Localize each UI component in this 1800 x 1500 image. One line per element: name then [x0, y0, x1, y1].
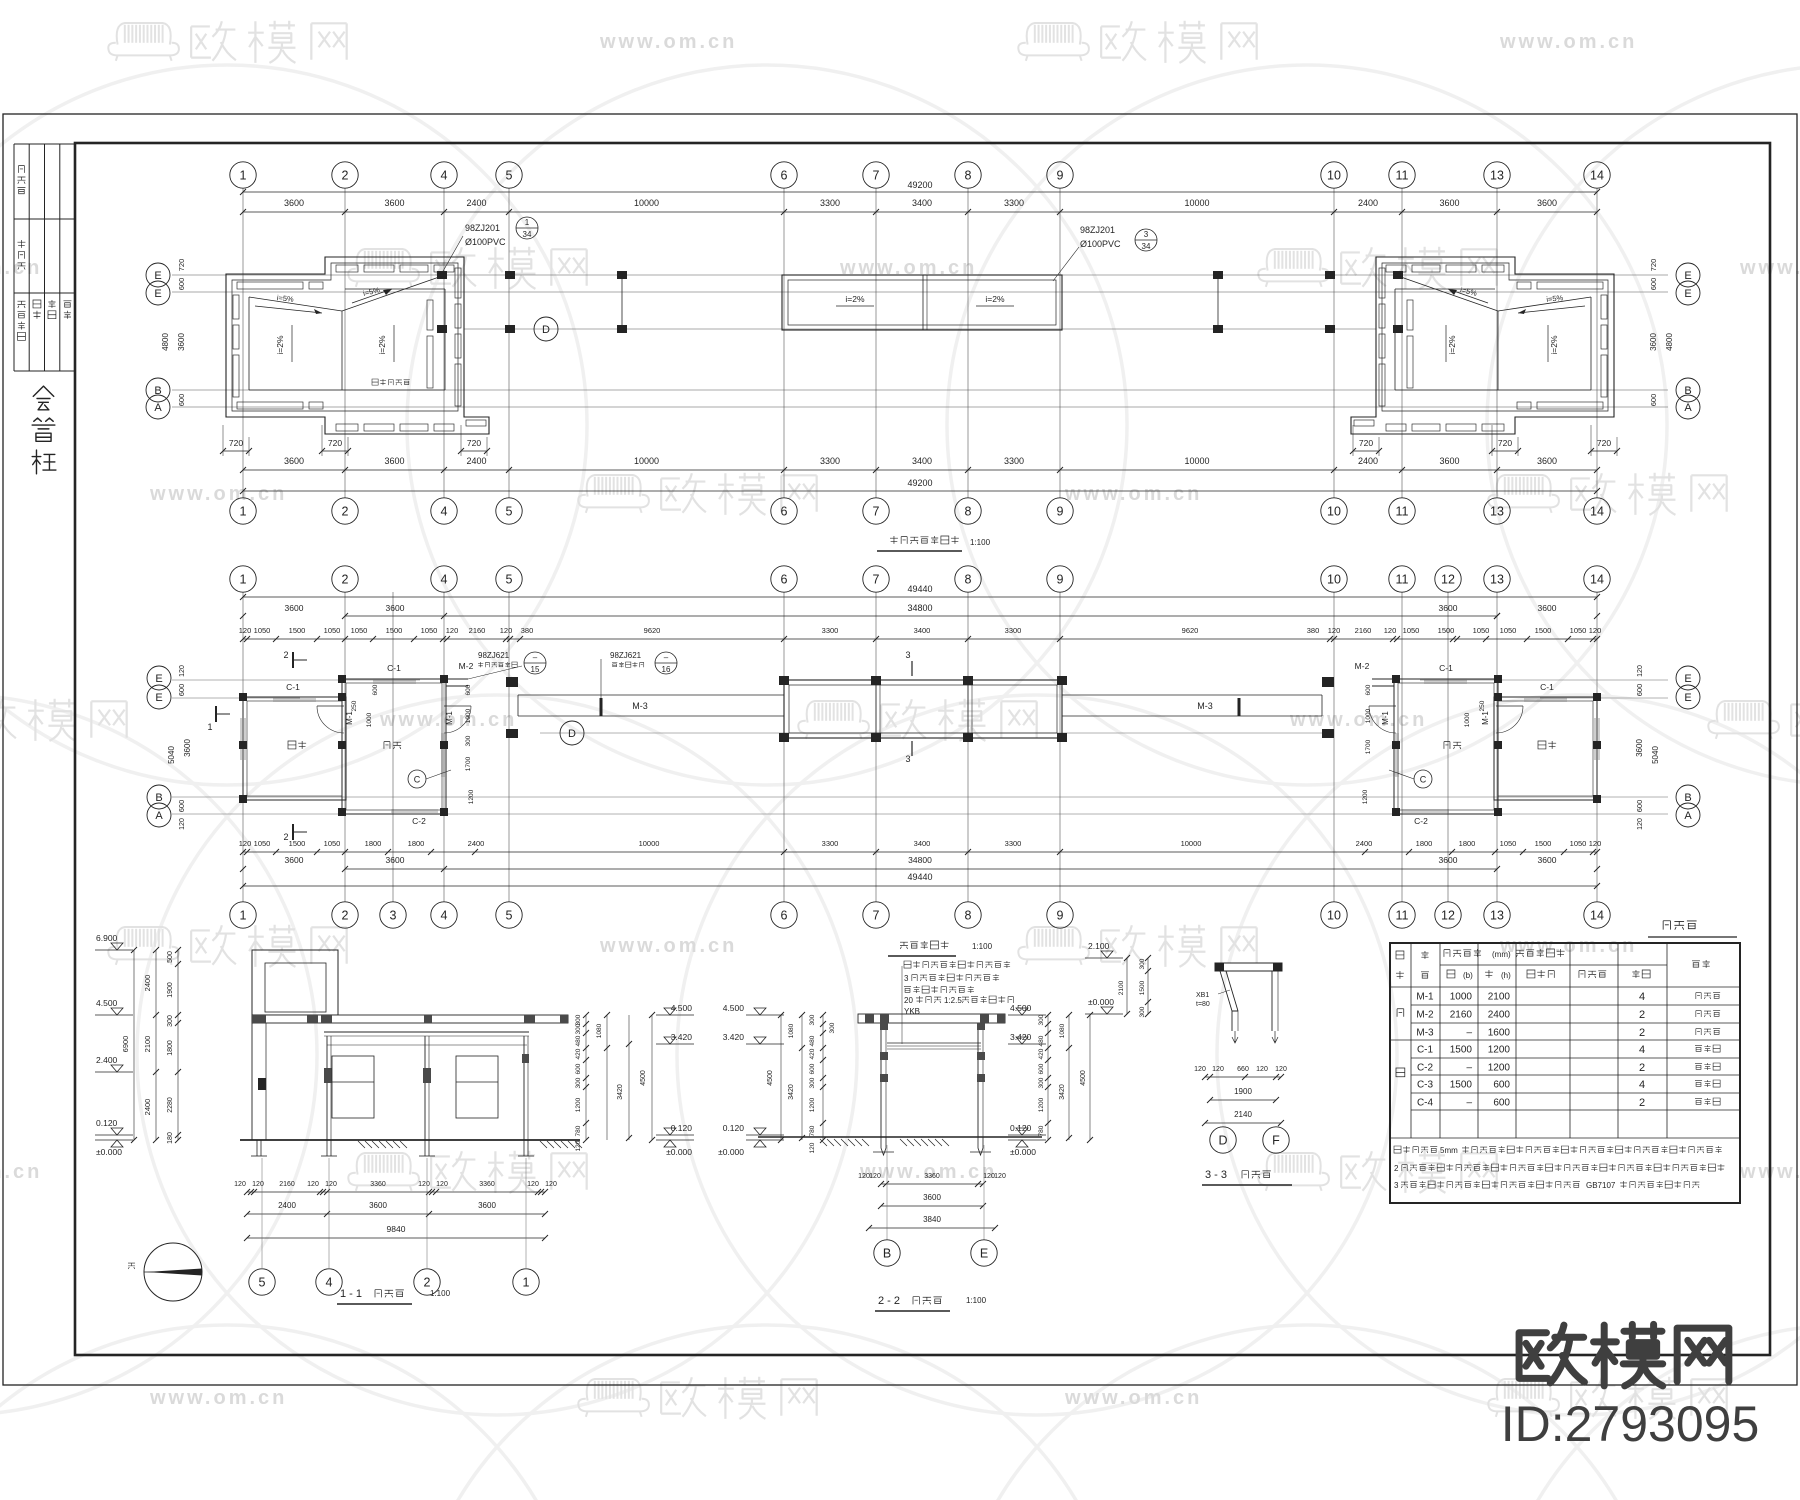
svg-text:3420: 3420	[617, 1084, 624, 1100]
svg-text:2400: 2400	[466, 198, 486, 208]
svg-text:2100: 2100	[1488, 992, 1511, 1003]
section 1-1 left level marks	[95, 949, 133, 951]
svg-text:600: 600	[1649, 278, 1658, 291]
svg-text:1500: 1500	[386, 626, 403, 635]
svg-text:7: 7	[873, 573, 880, 587]
svg-text:±0.000: ±0.000	[666, 1147, 692, 1157]
svg-text:3600: 3600	[284, 198, 304, 208]
svg-text:600: 600	[575, 1063, 582, 1074]
svg-text:(h): (h)	[1501, 971, 1511, 980]
svg-text:M-1: M-1	[1381, 711, 1390, 725]
top plan horizontal grid lines F E D B A	[172, 274, 1668, 276]
svg-text:3420: 3420	[1059, 1084, 1066, 1100]
svg-text:4: 4	[1639, 1079, 1645, 1091]
top plan vertical grid lines	[243, 188, 1597, 498]
svg-text:120: 120	[307, 1181, 319, 1188]
section 3-3 gate frame	[1215, 963, 1282, 971]
section 2-2 grid circles	[886, 1145, 888, 1240]
svg-text:E: E	[154, 288, 161, 300]
svg-text:3300: 3300	[1005, 626, 1022, 635]
svg-text:7: 7	[873, 909, 880, 923]
svg-text:3 - 3: 3 - 3	[1205, 1169, 1227, 1181]
middle plan grid circles top	[230, 566, 256, 592]
svg-text:i=2%: i=2%	[1447, 335, 1457, 355]
svg-text:3600: 3600	[369, 1201, 387, 1210]
section 1-1 level dim chains	[155, 950, 157, 1140]
svg-text:i=2%: i=2%	[275, 335, 285, 355]
svg-text:4: 4	[1639, 1044, 1645, 1056]
svg-text:C-1: C-1	[1439, 663, 1453, 673]
svg-text:2.400: 2.400	[96, 1055, 118, 1065]
section 1-1 roof slab	[252, 1015, 568, 1023]
svg-text:–: –	[1466, 1028, 1472, 1039]
svg-text:300: 300	[465, 735, 472, 746]
svg-text:5: 5	[506, 505, 513, 519]
top plan short post lines	[621, 275, 623, 329]
svg-text:1050: 1050	[351, 626, 368, 635]
svg-text:34800: 34800	[907, 603, 932, 613]
svg-text:0.120: 0.120	[671, 1123, 693, 1133]
svg-text:M-1: M-1	[1416, 992, 1434, 1003]
svg-text:3600: 3600	[1538, 603, 1557, 613]
svg-text:1500: 1500	[289, 839, 306, 848]
svg-text:720: 720	[467, 438, 481, 448]
svg-text:720: 720	[1649, 259, 1658, 272]
svg-text:1:100: 1:100	[430, 1289, 451, 1298]
svg-text:6: 6	[781, 909, 788, 923]
svg-text:120: 120	[1637, 665, 1644, 677]
svg-text:120: 120	[545, 1181, 557, 1188]
svg-text:2: 2	[1639, 1062, 1645, 1074]
svg-text:250: 250	[351, 700, 358, 711]
svg-text:D: D	[542, 324, 550, 336]
top plan row circles left	[146, 263, 170, 287]
svg-text:300: 300	[1139, 1006, 1146, 1017]
svg-text:120: 120	[179, 818, 186, 830]
svg-text:34: 34	[1142, 242, 1151, 251]
svg-text:7: 7	[873, 505, 880, 519]
svg-text:3600: 3600	[1538, 855, 1557, 865]
svg-text:6900: 6900	[121, 1036, 130, 1053]
svg-text:1:2.5: 1:2.5	[944, 996, 962, 1005]
svg-text:600: 600	[1493, 1098, 1510, 1109]
svg-text:4: 4	[441, 505, 448, 519]
svg-text:www.om.cn: www.om.cn	[1064, 483, 1202, 505]
svg-text:1700: 1700	[465, 756, 472, 771]
svg-text:1200: 1200	[1038, 1097, 1045, 1112]
svg-text:600: 600	[1635, 684, 1644, 697]
svg-text:Ø100PVC: Ø100PVC	[1080, 239, 1121, 249]
section 2-2 left level stack	[746, 1014, 784, 1016]
svg-text:600: 600	[1649, 394, 1658, 407]
svg-text:www.om.cn: www.om.cn	[599, 31, 737, 53]
top plan grid circles - top row	[230, 162, 256, 188]
svg-text:3600: 3600	[1537, 198, 1557, 208]
svg-text:1500: 1500	[289, 626, 306, 635]
svg-text:A: A	[155, 810, 163, 822]
svg-text:3600: 3600	[1635, 739, 1644, 757]
svg-text:3300: 3300	[1004, 198, 1024, 208]
svg-text:1200: 1200	[575, 1097, 582, 1112]
svg-text:1500: 1500	[1535, 626, 1552, 635]
svg-text:1000: 1000	[465, 708, 472, 723]
svg-text:3360: 3360	[924, 1173, 940, 1180]
svg-text:480: 480	[575, 1035, 582, 1046]
svg-text:1000: 1000	[1450, 992, 1473, 1003]
svg-text:B: B	[155, 792, 162, 804]
svg-text:2: 2	[424, 1276, 431, 1290]
svg-text:8: 8	[965, 573, 972, 587]
svg-text:3: 3	[1394, 1181, 1399, 1190]
svg-text:3600: 3600	[183, 739, 192, 757]
svg-text:600: 600	[177, 800, 186, 813]
svg-text:9: 9	[1057, 505, 1064, 519]
svg-text:3360: 3360	[370, 1181, 386, 1188]
svg-text:11: 11	[1396, 505, 1409, 519]
svg-text:4.500: 4.500	[1010, 1003, 1032, 1013]
svg-text:E: E	[1684, 288, 1691, 300]
section 1-1 columns	[326, 1036, 328, 1140]
door-window table	[1390, 943, 1740, 1203]
section 2-2 right level stack	[1008, 1014, 1046, 1016]
svg-text:10000: 10000	[1184, 456, 1209, 466]
svg-text:2160: 2160	[279, 1181, 295, 1188]
svg-text:180: 180	[167, 1132, 174, 1144]
svg-text:120: 120	[809, 1142, 816, 1153]
svg-text:2100: 2100	[1118, 980, 1125, 995]
svg-text:3600: 3600	[1439, 855, 1458, 865]
corridor fence lines M-3	[518, 694, 784, 696]
svg-text:1:100: 1:100	[966, 1296, 987, 1305]
svg-text:120: 120	[500, 626, 513, 635]
svg-text:5040: 5040	[167, 746, 176, 764]
svg-text:10000: 10000	[634, 198, 659, 208]
svg-text:1: 1	[207, 722, 212, 732]
section 1-1 footings	[256, 1140, 258, 1156]
svg-text:14: 14	[1590, 573, 1604, 587]
svg-text:660: 660	[1237, 1066, 1249, 1073]
svg-text:2400: 2400	[1356, 839, 1373, 848]
svg-text:9620: 9620	[1182, 626, 1199, 635]
svg-text:4.500: 4.500	[96, 998, 118, 1008]
svg-text:F: F	[1272, 1134, 1280, 1148]
svg-text:C-1: C-1	[387, 663, 401, 673]
section 1-1 right level stack	[656, 1014, 694, 1016]
svg-text:3: 3	[390, 909, 397, 923]
svg-text:98ZJ621: 98ZJ621	[478, 651, 510, 660]
svg-text:i=2%: i=2%	[985, 294, 1005, 304]
svg-text:3400: 3400	[912, 198, 932, 208]
svg-text:1800: 1800	[1459, 839, 1476, 848]
svg-text:9: 9	[1057, 573, 1064, 587]
svg-text:10000: 10000	[1181, 839, 1202, 848]
svg-text:3600: 3600	[1439, 198, 1459, 208]
svg-text:1200: 1200	[809, 1097, 816, 1112]
svg-text:C-1: C-1	[286, 682, 300, 692]
svg-text:420: 420	[1038, 1048, 1045, 1059]
inner drawing frame	[75, 143, 1770, 1355]
roof build-up note block	[904, 961, 911, 968]
svg-text:i=5%: i=5%	[1546, 293, 1564, 304]
section 3-3 bottom dims	[1205, 1076, 1281, 1078]
svg-text:500: 500	[167, 951, 174, 963]
svg-text:4.500: 4.500	[723, 1003, 745, 1013]
svg-text:–: –	[664, 653, 669, 662]
top plan top dimension row - segments	[243, 211, 1597, 213]
svg-text:3400: 3400	[912, 456, 932, 466]
svg-text:6: 6	[781, 573, 788, 587]
svg-text:1:100: 1:100	[970, 538, 991, 547]
svg-text:1000: 1000	[366, 712, 373, 727]
svg-text:720: 720	[1597, 438, 1611, 448]
svg-text:480: 480	[1038, 1035, 1045, 1046]
svg-text:–: –	[1466, 1098, 1472, 1109]
svg-text:1050: 1050	[421, 626, 438, 635]
svg-text:C-1: C-1	[1540, 682, 1554, 692]
svg-text:1080: 1080	[788, 1023, 795, 1038]
svg-text:2 - 2: 2 - 2	[878, 1295, 900, 1307]
svg-text:1000: 1000	[1365, 708, 1372, 723]
svg-text:9620: 9620	[644, 626, 661, 635]
svg-text:B: B	[883, 1247, 891, 1261]
svg-text:1:100: 1:100	[972, 942, 993, 951]
svg-text:720: 720	[1498, 438, 1512, 448]
svg-text:12: 12	[1441, 573, 1455, 587]
svg-text:8: 8	[965, 169, 972, 183]
top plan title: roof drainage diagram	[890, 536, 898, 544]
svg-text:1: 1	[240, 909, 247, 923]
svg-text:www.om.cn: www.om.cn	[599, 935, 737, 957]
svg-text:1900: 1900	[167, 982, 174, 998]
svg-text:9: 9	[1057, 909, 1064, 923]
svg-text:8: 8	[965, 505, 972, 519]
svg-text:www.om.cn: www.om.cn	[1064, 1387, 1202, 1409]
svg-text:3300: 3300	[1005, 839, 1022, 848]
svg-text:M-1: M-1	[345, 711, 354, 725]
section 1-1 ground line and hatch	[240, 1139, 580, 1141]
svg-text:120: 120	[1328, 626, 1341, 635]
svg-text:±0.000: ±0.000	[96, 1147, 122, 1157]
svg-text:1800: 1800	[365, 839, 382, 848]
svg-text:ID:2793095: ID:2793095	[1501, 1396, 1760, 1452]
section 2-2 columns	[880, 1023, 882, 1137]
svg-text:2100: 2100	[143, 1036, 152, 1053]
svg-text:1200: 1200	[1488, 1045, 1511, 1056]
svg-text:2160: 2160	[1450, 1010, 1473, 1021]
svg-text:1: 1	[240, 169, 247, 183]
svg-text:120: 120	[179, 665, 186, 677]
svg-text:–: –	[1466, 1063, 1472, 1074]
section 2-2 structure	[858, 1014, 1005, 1023]
svg-text:2400: 2400	[1488, 1010, 1511, 1021]
svg-text:2: 2	[1394, 1164, 1399, 1173]
svg-text:300: 300	[809, 1077, 816, 1088]
svg-text:3600: 3600	[478, 1201, 496, 1210]
table headers	[1396, 951, 1404, 959]
svg-text:120: 120	[446, 626, 459, 635]
svg-text:1800: 1800	[1416, 839, 1433, 848]
svg-text:1 - 1: 1 - 1	[340, 1288, 362, 1300]
svg-text:2.100: 2.100	[1088, 941, 1110, 951]
section 1-1 tall pillar	[252, 950, 338, 1015]
svg-text:±0.000: ±0.000	[1088, 997, 1114, 1007]
svg-text:GB7107: GB7107	[1586, 1181, 1616, 1190]
svg-text:3360: 3360	[479, 1181, 495, 1188]
svg-text:±0.000: ±0.000	[1010, 1147, 1036, 1157]
svg-text:2400: 2400	[468, 839, 485, 848]
svg-text:i=2%: i=2%	[377, 335, 387, 355]
svg-text:10000: 10000	[639, 839, 660, 848]
svg-text:11: 11	[1396, 573, 1409, 587]
svg-text:3600: 3600	[1439, 603, 1458, 613]
svg-text:M-3: M-3	[632, 701, 648, 711]
svg-text:300: 300	[167, 1015, 174, 1027]
middle plan bottom dims	[243, 851, 1597, 853]
svg-text:1700: 1700	[1365, 739, 1372, 754]
svg-text:1050: 1050	[1403, 626, 1420, 635]
svg-text:13: 13	[1490, 169, 1504, 183]
svg-text:600: 600	[177, 684, 186, 697]
svg-text:1050: 1050	[324, 839, 341, 848]
svg-text:10: 10	[1327, 169, 1341, 183]
svg-text:3.420: 3.420	[723, 1032, 745, 1042]
svg-text:49440: 49440	[907, 584, 932, 594]
svg-text:C-2: C-2	[1417, 1063, 1434, 1074]
svg-text:M-3: M-3	[1197, 701, 1213, 711]
svg-text:C-2: C-2	[1414, 816, 1428, 826]
svg-text:8: 8	[965, 909, 972, 923]
svg-text:1500: 1500	[1438, 626, 1455, 635]
svg-text:6: 6	[781, 505, 788, 519]
svg-text:5: 5	[506, 573, 513, 587]
svg-text:120: 120	[1637, 818, 1644, 830]
svg-text:5: 5	[259, 1276, 266, 1290]
svg-text:M-1: M-1	[1481, 711, 1490, 725]
svg-text:13: 13	[1490, 505, 1504, 519]
svg-text:2400: 2400	[143, 1099, 152, 1116]
section 2-2 bottom dims	[881, 1183, 983, 1185]
svg-text:1050: 1050	[1570, 839, 1587, 848]
svg-text:13: 13	[1490, 573, 1504, 587]
svg-text:1050: 1050	[254, 839, 271, 848]
svg-text:2: 2	[283, 650, 288, 660]
svg-text:600: 600	[1493, 1080, 1510, 1091]
section 1-1 windows	[332, 1056, 374, 1118]
svg-text:600: 600	[177, 394, 186, 407]
svg-text:3840: 3840	[923, 1215, 941, 1224]
svg-text:420: 420	[809, 1048, 816, 1059]
svg-text:5: 5	[506, 909, 513, 923]
svg-text:3600: 3600	[177, 333, 186, 351]
svg-text:A: A	[154, 402, 162, 414]
svg-text:11: 11	[1396, 909, 1409, 923]
svg-text:1050: 1050	[324, 626, 341, 635]
svg-text:3600: 3600	[1537, 456, 1557, 466]
svg-text:120: 120	[1589, 839, 1602, 848]
svg-text:4: 4	[441, 169, 448, 183]
signature table vertical texts	[18, 166, 24, 173]
left gatehouse floor plan	[243, 697, 346, 800]
svg-text:720: 720	[1359, 438, 1373, 448]
svg-text:720: 720	[177, 259, 186, 272]
svg-text:120: 120	[575, 1140, 582, 1151]
svg-text:5040: 5040	[1651, 746, 1660, 764]
middle plan D circle	[560, 721, 584, 745]
svg-text:11: 11	[1396, 169, 1409, 183]
svg-text:2400: 2400	[278, 1201, 296, 1210]
svg-text:2: 2	[342, 169, 349, 183]
svg-text:120: 120	[325, 1181, 337, 1188]
svg-text:15: 15	[531, 665, 540, 674]
svg-text:10000: 10000	[1184, 198, 1209, 208]
svg-text:E: E	[155, 673, 162, 685]
svg-text:E: E	[980, 1247, 988, 1261]
svg-text:600: 600	[177, 278, 186, 291]
svg-text:120: 120	[239, 839, 252, 848]
svg-text:www.om.cn: www.om.cn	[0, 1161, 42, 1183]
middle plan horizontal row lines	[172, 679, 420, 681]
svg-text:5mm: 5mm	[1440, 1146, 1458, 1155]
svg-text:49200: 49200	[907, 478, 932, 488]
svg-text:14: 14	[1590, 909, 1604, 923]
svg-text:B: B	[1684, 792, 1691, 804]
svg-text:1500: 1500	[1450, 1080, 1473, 1091]
svg-text:480: 480	[809, 1035, 816, 1046]
svg-text:380: 380	[521, 626, 534, 635]
svg-text:2140: 2140	[1234, 1110, 1252, 1119]
svg-text:2: 2	[1639, 1097, 1645, 1109]
svg-text:4: 4	[441, 909, 448, 923]
svg-text:t=80: t=80	[1196, 1001, 1210, 1008]
svg-text:(b): (b)	[1463, 971, 1473, 980]
svg-text:www.om.cn: www.om.cn	[1499, 31, 1637, 53]
svg-text:2: 2	[342, 505, 349, 519]
section 2-2 note leader line	[901, 966, 903, 1044]
svg-text:1500: 1500	[1450, 1045, 1473, 1056]
section 3-3 level marks	[1085, 957, 1123, 959]
svg-text:C: C	[414, 775, 421, 785]
svg-text:3: 3	[905, 754, 910, 764]
top plan grid D circle	[534, 317, 558, 341]
svg-text:1050: 1050	[1570, 626, 1587, 635]
svg-text:2: 2	[342, 573, 349, 587]
svg-text:10000: 10000	[634, 456, 659, 466]
svg-text:1600: 1600	[1488, 1028, 1511, 1039]
svg-text:D: D	[1218, 1134, 1227, 1148]
section 1-1 bottom dims	[247, 1191, 545, 1193]
svg-text:A: A	[1684, 810, 1692, 822]
svg-text:3600: 3600	[1439, 456, 1459, 466]
svg-text:98ZJ621: 98ZJ621	[610, 651, 642, 660]
svg-text:2: 2	[1639, 1009, 1645, 1021]
svg-text:7: 7	[873, 169, 880, 183]
svg-text:120: 120	[1384, 626, 1397, 635]
svg-text:C-2: C-2	[412, 816, 426, 826]
svg-text:E: E	[155, 692, 162, 704]
svg-text:E: E	[1684, 692, 1691, 704]
svg-text:4: 4	[326, 1276, 333, 1290]
svg-text:120: 120	[1275, 1066, 1287, 1073]
svg-text:3300: 3300	[820, 198, 840, 208]
svg-text:12: 12	[1441, 909, 1455, 923]
svg-text:0.120: 0.120	[1010, 1123, 1032, 1133]
svg-text:6: 6	[781, 169, 788, 183]
svg-text:120: 120	[1256, 1066, 1268, 1073]
svg-text:120: 120	[418, 1181, 430, 1188]
svg-text:(mm): (mm)	[1492, 950, 1511, 959]
svg-text:C-3: C-3	[1417, 1080, 1434, 1091]
hui qian lan vertical label	[33, 386, 54, 410]
